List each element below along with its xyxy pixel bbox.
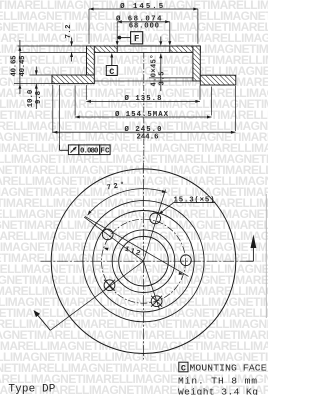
dim Ø154.5MAX line+arrows (75, 116, 212, 118)
svg-text:40.65: 40.65 (10, 56, 18, 77)
band inner circle (Ø154.5) (83, 201, 204, 322)
section: hat top plate right part (hatched) (170, 46, 201, 52)
svg-text:Ø 145.5: Ø 145.5 (120, 2, 163, 11)
dim 4.0x45 upper leader with down arrow (160, 37, 162, 43)
svg-text:15.3(×5): 15.3(×5) (174, 196, 215, 204)
X mark on bottom hole (151, 296, 162, 307)
bolt hole lower-left (Ø15.3) (104, 280, 115, 291)
tolerance frame boxes (68, 145, 78, 155)
dim 7.2 arrows (71, 38, 73, 47)
svg-text:MOUNTING FACE: MOUNTING FACE (190, 362, 267, 373)
X mark on lower-left hole (104, 280, 115, 291)
dim 7.2 extension lines (18, 45, 87, 47)
dim Ø245 extension lines (52, 85, 54, 133)
band top extension line to left (30, 74, 53, 76)
hat outer circle (Ø135.8) (93, 211, 194, 312)
dim 72deg arc (88, 189, 167, 215)
svg-text:Min. TH 8 mm: Min. TH 8 mm (178, 375, 257, 386)
svg-text:0.080: 0.080 (80, 148, 99, 156)
label 15.3 leader arrow (161, 203, 174, 213)
band bottom extension line to left (14, 83, 52, 85)
dim 10.0/9.8 arrows (35, 67, 37, 76)
svg-text:Ø 135.8: Ø 135.8 (125, 94, 162, 103)
svg-text:7.2: 7.2 (65, 25, 73, 39)
section: left hat wall (hatched) (87, 46, 95, 75)
datum C box (notes) (179, 362, 188, 372)
bolt hole top (Ø15.3) (150, 213, 161, 224)
dim Ø135.8 line+arrows (86, 100, 200, 102)
section: bore far-side projection lines (117, 45, 170, 47)
datum C box (section) (106, 66, 117, 76)
section: right friction band (hatched) (200, 75, 236, 85)
section vertical centerline (143, 53, 145, 162)
leader from lower-left hole to outside (50, 261, 143, 330)
svg-text:Weight 3.4 Kg: Weight 3.4 Kg (178, 386, 258, 395)
datum F box (131, 32, 143, 44)
svg-text:40.45: 40.45 (19, 56, 27, 77)
radial line through upper-left hole (84, 217, 143, 261)
tolerance frame leader (59, 145, 61, 151)
dim 72deg arc arrows (88, 211, 92, 216)
bolt circle Ø112 (dash-dot) (102, 219, 186, 303)
svg-text:4.0×45°: 4.0×45° (149, 55, 158, 87)
front view horizontal centerline (41, 260, 248, 262)
svg-text:10.0: 10.0 (27, 90, 35, 108)
bolt hole upper-left (Ø15.3) (102, 229, 113, 240)
radial line through top hole (144, 190, 166, 262)
dim Ø145.5 line+arrows (89, 8, 198, 10)
svg-text:244.6: 244.6 (137, 134, 159, 142)
dim Ø245.0 line+arrows (53, 131, 236, 133)
svg-text:Ø 154.5MAX: Ø 154.5MAX (115, 110, 169, 119)
bolt hole right (Ø15.3) (181, 255, 192, 266)
dim Ø68 extension lines with down arrows (116, 22, 118, 43)
rotation direction arrow (right side) (247, 260, 254, 262)
svg-text:Type DP: Type DP (8, 383, 55, 395)
runout symbol (arrow in first cell) (71, 147, 77, 153)
dim 4.0x45 lower line with up arrow (160, 54, 162, 91)
dim Ø135.8 extension lines (85, 85, 87, 100)
section: right hat wall (hatched) (193, 46, 200, 81)
datum F leader with dot (121, 37, 131, 39)
dim 40.65/40.45 line+arrows (19, 40, 21, 94)
svg-text:9.8: 9.8 (35, 91, 43, 104)
section: left friction band (hatched) (52, 75, 94, 84)
svg-text:F: F (134, 34, 139, 44)
section: hat top plate left part (hatched) (87, 46, 118, 52)
center bore circle (Ø68) (119, 236, 169, 286)
svg-text:FC: FC (100, 148, 110, 156)
svg-text:68.000: 68.000 (129, 22, 159, 30)
dim 112 diagonal line (85, 216, 189, 276)
datum C leader arrow (111, 57, 113, 66)
direction arrow segment (35, 312, 50, 330)
dim Ø68 outside arrows (117, 20, 122, 23)
scan edge line right (265, 194, 267, 318)
dim Ø68.074/68.000 line (117, 21, 170, 23)
front view vertical centerline (143, 163, 145, 360)
dim Ø154.5MAX extension lines (74, 86, 76, 116)
outer circle (Ø245) (51, 169, 236, 354)
section: web underside line (94, 80, 193, 82)
svg-text:C: C (181, 363, 186, 373)
dim 112 arrows on bolt circle (104, 248, 109, 251)
hub circle (112, 230, 175, 293)
radial line through bottom hole (144, 261, 160, 309)
dim Ø145.5 extension lines (88, 9, 90, 44)
section: step surface extension line (3.5) (149, 77, 193, 79)
bolt hole bottom (Ø15.3) (151, 296, 162, 307)
svg-text:3.5: 3.5 (158, 72, 166, 86)
svg-text:C: C (109, 67, 114, 77)
